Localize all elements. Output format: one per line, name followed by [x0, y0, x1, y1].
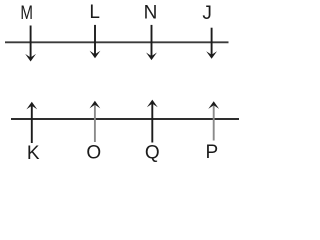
- svg-text:P: P: [205, 142, 218, 163]
- svg-text:J: J: [202, 3, 212, 24]
- svg-text:O: O: [86, 143, 101, 164]
- svg-text:M: M: [20, 3, 33, 24]
- svg-text:L: L: [89, 2, 100, 23]
- svg-text:K: K: [27, 143, 40, 164]
- svg-text:N: N: [144, 2, 158, 23]
- svg-text:Q: Q: [145, 143, 160, 164]
